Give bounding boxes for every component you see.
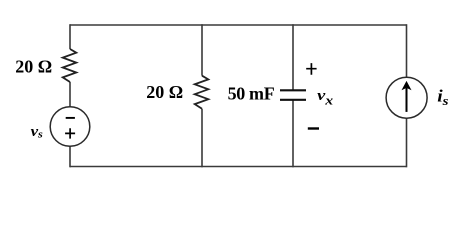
resistor R1 20Ω (left)	[63, 49, 77, 82]
capacitor C1 50mF top plate	[280, 89, 306, 91]
wire mid-branch-1 upper	[201, 24, 203, 75]
wire bottom	[70, 166, 407, 168]
plus sign (vx polarity)	[306, 63, 316, 75]
svg-text:50 mF: 50 mF	[228, 84, 275, 104]
wire left-branch lower	[69, 146, 71, 167]
svg-text:vs: vs	[31, 124, 44, 141]
wire right-branch lower	[406, 118, 408, 167]
current source arrow head	[402, 81, 412, 90]
svg-text:is: is	[437, 87, 449, 109]
wire right-branch upper	[406, 24, 408, 77]
minus sign (vx polarity)	[308, 127, 319, 129]
wire top	[70, 24, 407, 26]
voltage source plus sign	[65, 128, 75, 138]
current source is	[386, 77, 427, 118]
voltage source vs	[50, 107, 90, 147]
resistor R2 20Ω (middle)	[195, 76, 209, 109]
current source arrow shaft	[406, 88, 408, 112]
voltage source minus sign	[66, 117, 75, 119]
wire left-branch middle	[69, 82, 71, 107]
svg-text:vx: vx	[317, 87, 333, 108]
wire left-branch upper	[69, 24, 71, 49]
wire cap-branch upper	[292, 24, 294, 90]
wire mid-branch-1 lower	[201, 109, 203, 168]
svg-text:20 Ω: 20 Ω	[146, 82, 183, 102]
capacitor C1 50mF bottom plate	[280, 99, 306, 101]
wire cap-branch lower	[292, 100, 294, 168]
svg-text:20 Ω: 20 Ω	[15, 57, 52, 77]
